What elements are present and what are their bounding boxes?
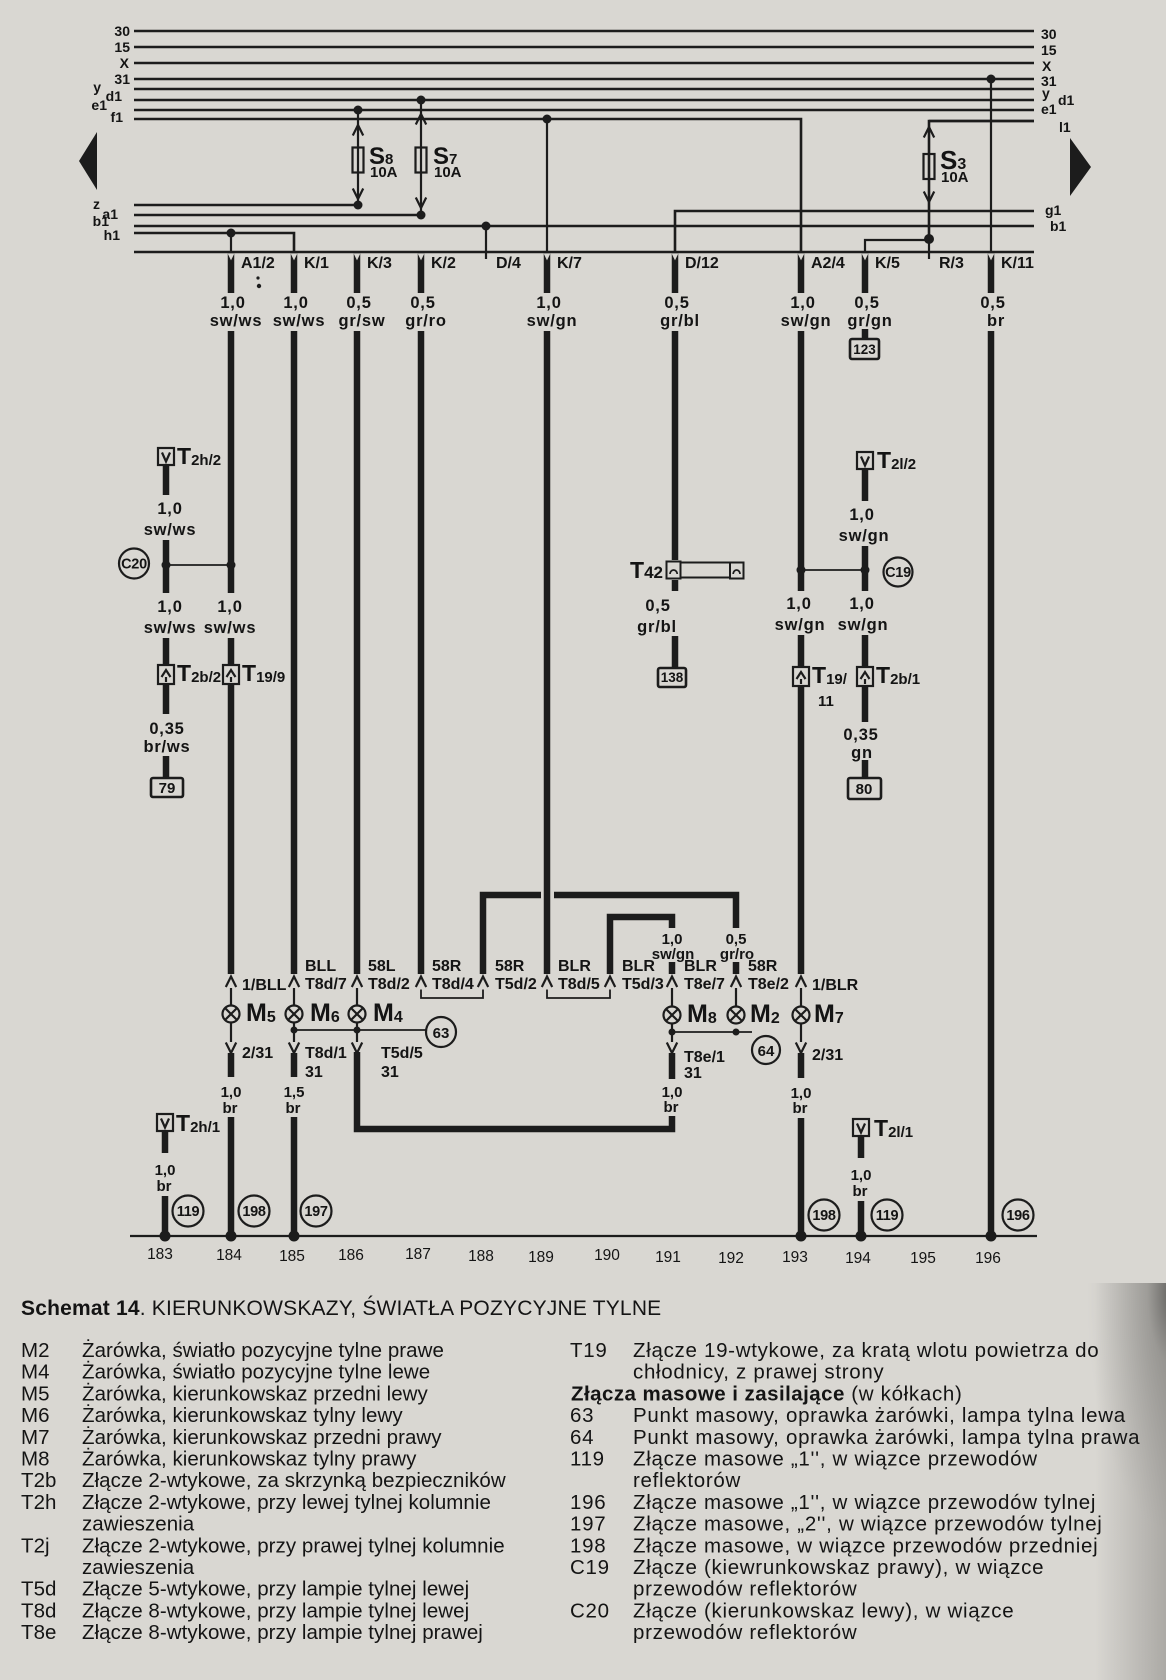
M8 pin arrow T8e/1 31 [671, 1024, 673, 1042]
svg-text:191: 191 [655, 1249, 681, 1266]
svg-text:M6: M6 [310, 999, 340, 1027]
svg-text:M5: M5 [21, 1382, 50, 1405]
svg-text:1,0: 1,0 [155, 1162, 176, 1179]
svg-text:br: br [664, 1099, 679, 1116]
svg-text:Złącze 8-wtykowe, przy lampie: Złącze 8-wtykowe, przy lampie tylnej pra… [82, 1621, 483, 1644]
wire K/2 long down to pin 58R T8d/4 [418, 331, 425, 974]
svg-text:0,5: 0,5 [664, 294, 689, 312]
svg-text:sw/gn: sw/gn [838, 616, 889, 634]
svg-text:197: 197 [304, 1204, 328, 1220]
svg-text:D/4: D/4 [496, 255, 521, 272]
wire into T19/11 [798, 635, 805, 667]
wire A2/4 down to C19 node [798, 331, 805, 568]
svg-text:31: 31 [684, 1065, 702, 1082]
lamp M5 feed [230, 988, 232, 1006]
svg-text:sw/ws: sw/ws [204, 619, 257, 637]
svg-text:M8: M8 [687, 1000, 717, 1028]
lamp M7 [793, 1000, 844, 1028]
wire H1 left branch to pin 58R T5d/2 [483, 895, 541, 974]
wire T2h/1 down [162, 1196, 169, 1236]
node h1/A1/2 [227, 229, 236, 238]
bus d1 [134, 99, 1034, 102]
svg-text:T5d/5: T5d/5 [381, 1045, 423, 1062]
lamp M6 [286, 999, 340, 1027]
svg-text:11: 11 [818, 693, 834, 710]
bus e1 [134, 109, 1034, 112]
svg-text:sw/gn: sw/gn [781, 312, 832, 330]
M5 pin arrow 2/31 [230, 1023, 232, 1042]
svg-text:63: 63 [570, 1404, 594, 1427]
svg-text:196: 196 [1006, 1208, 1030, 1224]
pin arrow BLL T8d/7 [289, 977, 299, 988]
svg-text:Złącze 2-wtykowe, przy prawej: Złącze 2-wtykowe, przy prawej tylnej kol… [82, 1534, 505, 1557]
M7 ground stub [798, 1053, 805, 1078]
lamp M6 feed [293, 988, 295, 1006]
svg-text:T2h: T2h [21, 1491, 56, 1514]
svg-text:Złącza masowe i zasilające (w: Złącza masowe i zasilające (w kółkach) [571, 1382, 963, 1405]
svg-text:X: X [1042, 58, 1052, 74]
svg-text:31: 31 [114, 71, 130, 87]
svg-text:M4: M4 [21, 1361, 50, 1384]
svg-text:przewodów reflektorów: przewodów reflektorów [633, 1621, 857, 1644]
M7 pin arrow 2/31 [800, 1023, 802, 1042]
wire K/3 long down to M4 [354, 331, 361, 974]
legend left column [21, 1339, 506, 1644]
wire A2/4 down to M7 [798, 686, 805, 974]
svg-text:0,5: 0,5 [645, 597, 670, 615]
svg-text:Złącze masowe „1'', w wiązce p: Złącze masowe „1'', w wiązce przewodów [633, 1448, 1038, 1471]
legend right column [570, 1339, 1140, 1644]
wire stub to pin 58R T8e/2 [733, 962, 740, 974]
svg-text:T2b/2: T2b/2 [177, 660, 221, 686]
svg-text:T8d/2: T8d/2 [368, 976, 410, 993]
wire K/11 long down [988, 331, 995, 1236]
fuse S8 wire [357, 110, 359, 205]
svg-text:T2b: T2b [21, 1469, 56, 1492]
wire stub to ground 79 [163, 756, 170, 779]
svg-text:31: 31 [305, 1064, 323, 1081]
wire A1/2 long down to M5 [228, 684, 235, 974]
terminal K/7 [544, 253, 582, 293]
svg-text:0,5: 0,5 [410, 294, 435, 312]
pin arrow 58R T5d/2 [478, 977, 488, 988]
node M5 ground [226, 1231, 237, 1242]
svg-text:sw/ws: sw/ws [273, 312, 326, 330]
svg-text:30: 30 [114, 23, 130, 39]
wire left below node [163, 567, 170, 593]
svg-text:189: 189 [528, 1249, 554, 1266]
plug bracket T8d/4 T5d/2 [421, 990, 483, 999]
terminal A2/4 [798, 253, 845, 293]
svg-text:sw/ws: sw/ws [144, 619, 197, 637]
bus a1 [134, 214, 421, 217]
svg-text:h1: h1 [104, 227, 121, 243]
svg-text:T19/: T19/ [812, 662, 848, 688]
M5 ground stub [228, 1053, 235, 1077]
svg-text:br: br [223, 1100, 238, 1117]
svg-text:K/11: K/11 [1001, 255, 1034, 272]
wire H1 right branch [554, 895, 736, 928]
svg-text:T8d/5: T8d/5 [558, 976, 600, 993]
connector T2h/2 [158, 443, 221, 469]
svg-text:T8e/2: T8e/2 [748, 976, 789, 993]
svg-text:Żarówka, światło pozycyjne tyl: Żarówka, światło pozycyjne tylne lewe [82, 1361, 430, 1384]
wire T2h/2 upper [163, 465, 170, 495]
svg-text:58L: 58L [368, 958, 396, 975]
wire A1/2 down to T19/9 [228, 331, 235, 562]
wire A2/4 below node [798, 572, 805, 591]
bus b1 [134, 225, 1034, 228]
svg-text:190: 190 [594, 1247, 620, 1264]
bus 15 [134, 46, 1034, 49]
svg-text:2/31: 2/31 [242, 1045, 273, 1062]
ground box 123 [850, 339, 879, 359]
ground link 63 [294, 1029, 426, 1031]
svg-text:br: br [157, 1178, 172, 1195]
svg-text:C19: C19 [885, 565, 911, 581]
wire T2l/1 stub [858, 1136, 865, 1158]
node link C20 [166, 564, 231, 566]
svg-text:T19/9: T19/9 [242, 660, 285, 686]
svg-text:1,5: 1,5 [284, 1084, 305, 1101]
ground circle 198 left [239, 1196, 270, 1227]
svg-text:T5d/3: T5d/3 [622, 976, 664, 993]
svg-text:gr/gn: gr/gn [847, 312, 892, 330]
M4 pin arrow T5d/5 31 [356, 1023, 358, 1042]
svg-text:0,5: 0,5 [980, 294, 1005, 312]
svg-text:1,0: 1,0 [157, 500, 182, 518]
M7 ground wire down [798, 1118, 805, 1236]
svg-text:1,0: 1,0 [221, 1084, 242, 1101]
svg-text:1,0: 1,0 [786, 595, 811, 613]
lamp M7 feed [800, 988, 802, 1007]
svg-text:zawieszenia: zawieszenia [82, 1556, 195, 1579]
svg-text:reflektorów: reflektorów [633, 1469, 741, 1492]
svg-text:Złącze (kiewrunkowskaz prawy),: Złącze (kiewrunkowskaz prawy), w wiązce [633, 1556, 1044, 1579]
connector C19 circle [884, 558, 913, 587]
svg-text:Żarówka, kierunkowskaz tylny l: Żarówka, kierunkowskaz tylny lewy [82, 1404, 403, 1427]
svg-text:1,0: 1,0 [536, 294, 561, 312]
svg-text:T8d: T8d [21, 1599, 56, 1622]
wire below T42 [672, 580, 679, 591]
wire K/11 tap from 31 [990, 79, 992, 252]
svg-text:2/31: 2/31 [812, 1047, 843, 1064]
svg-text:1,0: 1,0 [283, 294, 308, 312]
terminal A1/2 [228, 253, 275, 293]
ground point 63 circle [426, 1017, 456, 1047]
ground box 80 [848, 778, 881, 799]
svg-text:184: 184 [216, 1247, 242, 1264]
M6 pin arrow T8d/1 31 [293, 1023, 295, 1042]
svg-text:1,0: 1,0 [217, 598, 242, 616]
svg-text:193: 193 [782, 1249, 808, 1266]
svg-text:1,0: 1,0 [790, 294, 815, 312]
svg-text:T19: T19 [570, 1339, 607, 1362]
svg-text:gr/ro: gr/ro [405, 312, 447, 330]
svg-text:T2l/1: T2l/1 [874, 1115, 913, 1141]
svg-text:T5d/2: T5d/2 [495, 976, 537, 993]
svg-text:f1: f1 [111, 109, 124, 125]
svg-text:T5d: T5d [21, 1578, 56, 1601]
connector T2l/2 [857, 447, 916, 473]
svg-text:Złącze masowe „1'', w wiązce p: Złącze masowe „1'', w wiązce przewodów t… [633, 1491, 1096, 1514]
connector T19/11 [793, 662, 848, 710]
svg-text:Złącze masowe, w wiązce przewo: Złącze masowe, w wiązce przewodów przedn… [633, 1534, 1098, 1557]
bus h1 with A1/2 tap and K/1 drop [134, 233, 294, 252]
svg-text:194: 194 [845, 1250, 871, 1267]
wire into T2b/1 [862, 635, 869, 667]
svg-text:187: 187 [405, 1246, 431, 1263]
svg-text:63: 63 [433, 1025, 450, 1042]
svg-text:T2h/1: T2h/1 [176, 1110, 220, 1136]
svg-text:T8d/7: T8d/7 [305, 976, 347, 993]
svg-text:T8e: T8e [21, 1621, 56, 1644]
svg-text:br: br [286, 1100, 301, 1117]
svg-text:K/1: K/1 [304, 255, 329, 272]
svg-text:196: 196 [570, 1491, 606, 1514]
svg-text:T2j: T2j [21, 1534, 50, 1557]
connector C20 circle [119, 549, 149, 579]
svg-text:g1: g1 [1045, 202, 1062, 218]
svg-text:Złącze 8-wtykowe, przy lampie: Złącze 8-wtykowe, przy lampie tylnej lew… [82, 1599, 469, 1622]
svg-text:M7: M7 [21, 1426, 50, 1449]
svg-text:T8e/7: T8e/7 [684, 976, 725, 993]
svg-text:T8e/1: T8e/1 [684, 1049, 725, 1066]
connector T42 [630, 557, 744, 583]
svg-text:197: 197 [570, 1513, 606, 1536]
svg-text:31: 31 [381, 1064, 399, 1081]
terminal R/3 [928, 252, 930, 259]
fuse S3 wire [929, 121, 1034, 239]
svg-text:T2b/1: T2b/1 [876, 662, 920, 688]
svg-text:K/2: K/2 [431, 255, 456, 272]
svg-text:58R: 58R [495, 958, 525, 975]
svg-text:79: 79 [159, 780, 176, 797]
svg-text:br: br [987, 312, 1005, 330]
wire into T2b/2 [163, 638, 170, 665]
right direction arrow [1070, 138, 1091, 196]
wire H2 bridge T5d/3 to T8e/7 [610, 917, 672, 974]
bus f1 wire with A2/4 drop [134, 119, 801, 252]
svg-text:e1: e1 [1041, 101, 1057, 117]
svg-text:M2: M2 [21, 1339, 50, 1362]
fuse S8 [353, 148, 364, 173]
ground circle 198 right [809, 1200, 840, 1231]
svg-text:10A: 10A [941, 169, 969, 186]
wire stub to ground 80 [862, 760, 869, 779]
svg-text:br: br [853, 1183, 868, 1200]
node M7 ground [796, 1231, 807, 1242]
svg-text:M6: M6 [21, 1404, 50, 1427]
svg-text:K/3: K/3 [367, 255, 392, 272]
svg-text:T42: T42 [630, 557, 663, 583]
connector T2h/1 [157, 1110, 220, 1136]
svg-text:119: 119 [876, 1208, 899, 1224]
node M6 ground [289, 1231, 300, 1242]
wire T2l/2 to C19 node [862, 546, 869, 568]
svg-text:196: 196 [975, 1250, 1001, 1267]
wire K/5 jog to R/3 node [865, 240, 929, 252]
svg-text:138: 138 [661, 670, 684, 685]
svg-text:0,35: 0,35 [843, 726, 878, 744]
ground box 79 [151, 778, 183, 797]
svg-text:br: br [793, 1100, 808, 1117]
bus g1 wire with D/12 drop [675, 211, 1034, 252]
svg-text:0,35: 0,35 [149, 720, 184, 738]
ground circle 119 right [872, 1200, 903, 1231]
terminal K/2 [418, 253, 456, 293]
pin arrow BLR T8d/5 [542, 977, 552, 988]
svg-text:T8d/1: T8d/1 [305, 1045, 347, 1062]
svg-text:188: 188 [468, 1248, 494, 1265]
wire T2l/1 down [858, 1201, 865, 1236]
svg-text:M2: M2 [750, 1000, 780, 1028]
svg-text:sw/gn: sw/gn [527, 312, 578, 330]
svg-text:198: 198 [242, 1204, 266, 1220]
wire K/1 long down to M6 [291, 331, 298, 974]
pin arrow 1/BLL [226, 977, 236, 988]
bus X [134, 62, 1034, 65]
svg-text:M4: M4 [373, 999, 403, 1027]
svg-text:Żarówka, kierunkowskaz przedni: Żarówka, kierunkowskaz przedni lewy [82, 1382, 429, 1405]
svg-text:195: 195 [910, 1250, 936, 1267]
svg-text:M5: M5 [246, 999, 276, 1027]
svg-text:A1/2: A1/2 [241, 255, 275, 272]
node T2l/1 ground [856, 1231, 867, 1242]
svg-text:123: 123 [853, 342, 876, 357]
bus y [134, 88, 1034, 91]
svg-text:1,0: 1,0 [157, 598, 182, 616]
ground link 64 [672, 1031, 752, 1033]
svg-text:Schemat 14. KIERUNKOWSKAZY, ŚW: Schemat 14. KIERUNKOWSKAZY, ŚWIATŁA POZY… [21, 1296, 661, 1320]
svg-text:br/ws: br/ws [143, 738, 190, 756]
svg-text:0,5: 0,5 [346, 294, 371, 312]
svg-text:58R: 58R [432, 958, 462, 975]
terminal D/12 [672, 253, 719, 293]
svg-text:185: 185 [279, 1248, 305, 1265]
svg-text:gr/sw: gr/sw [338, 312, 385, 330]
lamp M4 [349, 999, 403, 1027]
svg-text:przewodów reflektorów: przewodów reflektorów [633, 1578, 857, 1601]
ground point 64 circle [752, 1036, 780, 1064]
svg-text:C19: C19 [570, 1556, 610, 1579]
svg-text:1/BLR: 1/BLR [812, 977, 859, 994]
lamp M8 feed [671, 988, 673, 1007]
page shadow lower right [1075, 1283, 1166, 1533]
svg-text:A2/4: A2/4 [811, 255, 845, 272]
wire A1/2 tap [230, 233, 232, 252]
bus l1 [929, 120, 1034, 123]
fuse S7 wire [420, 100, 422, 215]
svg-text:64: 64 [758, 1043, 775, 1060]
wire D/12 down to T42 [672, 331, 679, 560]
svg-text:1,0: 1,0 [849, 595, 874, 613]
svg-text:e1: e1 [91, 97, 107, 113]
M6 ground stub [291, 1053, 298, 1077]
svg-text:d1: d1 [1058, 92, 1075, 108]
wire K/7 long down to pin BLR T8d/5 [544, 331, 551, 974]
terminal K/5 [862, 253, 900, 293]
svg-text:T2l/2: T2l/2 [877, 447, 916, 473]
M6 ground wire down [291, 1117, 298, 1236]
pin arrow 58R T8e/2 [731, 977, 741, 988]
svg-text:C20: C20 [570, 1599, 610, 1622]
lamp M2 feed [735, 988, 737, 1007]
svg-text:y: y [93, 79, 101, 95]
wire T2h/2 to C20 node [163, 540, 170, 562]
wire D/4 tap from b1 [485, 226, 487, 252]
wire K/5 stub to ground 123 [862, 329, 869, 341]
wire below T2b/2 [163, 684, 170, 714]
svg-text:64: 64 [570, 1426, 594, 1449]
terminal D/4 [485, 252, 487, 259]
terminal row line [134, 251, 1034, 254]
svg-text:sw/ws: sw/ws [144, 521, 197, 539]
svg-text:gr/bl: gr/bl [660, 312, 700, 330]
svg-text:Żarówka, światło pozycyjne tyl: Żarówka, światło pozycyjne tylne prawe [82, 1339, 444, 1362]
svg-text:b1: b1 [1050, 218, 1067, 234]
bus z [134, 204, 358, 207]
bus 31 [134, 78, 1034, 81]
connector T2l/1 [853, 1115, 913, 1141]
svg-text:zawieszenia: zawieszenia [82, 1513, 195, 1536]
fuse S3 [924, 154, 935, 179]
svg-text:BLR: BLR [622, 958, 655, 975]
svg-text:BLL: BLL [305, 958, 336, 975]
svg-text:198: 198 [570, 1534, 606, 1557]
wire T2l/2 upper [862, 469, 869, 501]
svg-text:Złącze 2-wtykowe, za skrzynką: Złącze 2-wtykowe, za skrzynką bezpieczni… [82, 1469, 506, 1492]
svg-text:K/7: K/7 [557, 255, 582, 272]
svg-text:1,0: 1,0 [220, 294, 245, 312]
svg-text:Punkt masowy, oprawka żarówki,: Punkt masowy, oprawka żarówki, lampa tyl… [633, 1404, 1126, 1427]
svg-text:D/12: D/12 [685, 255, 719, 272]
svg-text:T8d/4: T8d/4 [432, 976, 474, 993]
wire K/7 tap from f1 [546, 119, 548, 252]
svg-text:Żarówka, kierunkowskaz tylny p: Żarówka, kierunkowskaz tylny prawy [82, 1448, 417, 1471]
svg-text:R/3: R/3 [939, 255, 964, 272]
svg-text:15: 15 [1041, 42, 1057, 58]
svg-text:M7: M7 [814, 1000, 844, 1028]
node link C19 [801, 569, 865, 571]
svg-text:0,5: 0,5 [854, 294, 879, 312]
svg-text:Żarówka, kierunkowskaz przedni: Żarówka, kierunkowskaz przedni prawy [82, 1426, 442, 1449]
svg-text:z: z [93, 196, 100, 212]
fuse S7 [416, 148, 427, 173]
svg-text:chłodnicy, z prawej strony: chłodnicy, z prawej strony [633, 1361, 884, 1384]
svg-text:10A: 10A [434, 164, 462, 181]
wire to ground 138 [672, 636, 679, 669]
svg-text:Złącze (kierunkowskaz lewy), w: Złącze (kierunkowskaz lewy), w wiązce [633, 1599, 1014, 1622]
svg-text:186: 186 [338, 1247, 364, 1264]
wire below T2b/1 [862, 686, 869, 722]
svg-text:BLR: BLR [684, 958, 717, 975]
svg-text:C20: C20 [121, 557, 147, 573]
svg-text:58R: 58R [748, 958, 778, 975]
svg-text:183: 183 [147, 1246, 173, 1263]
left direction arrow [79, 132, 97, 190]
svg-text:Złącze masowe, „2'', w wiązce: Złącze masowe, „2'', w wiązce przewodów … [633, 1513, 1103, 1536]
lamp M5 [223, 999, 276, 1027]
svg-text:10A: 10A [370, 164, 398, 181]
pin arrow BLR T5d/3 [605, 977, 615, 988]
svg-text:Złącze 5-wtykowe, przy lampie: Złącze 5-wtykowe, przy lampie tylnej lew… [82, 1578, 469, 1601]
ground circle 119 left [173, 1196, 204, 1227]
svg-text:119: 119 [570, 1448, 605, 1471]
terminal K/1 [291, 253, 329, 293]
svg-text:Złącze 19-wtykowe, za kratą wl: Złącze 19-wtykowe, za kratą wlotu powiet… [633, 1339, 1099, 1362]
M5 ground wire down [228, 1117, 235, 1236]
